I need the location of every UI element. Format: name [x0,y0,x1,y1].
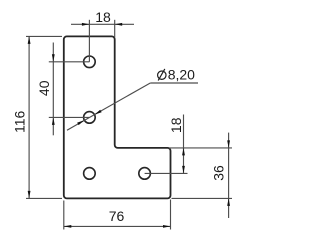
dimension 18 (top): dimension line [71,23,134,25]
svg-text:36: 36 [210,165,226,181]
dimension 18 (top): left arrow (outside, pointing right) [82,23,90,26]
dimension 116 (far left): top extension line [26,35,62,37]
dimension 36 (far right): top arrow (outside, pointing down) [227,140,230,148]
dimension 18 (right inner): bottom arrow (inside, pointing down) [182,166,185,174]
svg-text:116: 116 [11,111,27,134]
dimension 76 (bottom): right extension line below bottom-right corner [170,200,172,230]
dimension 18 (right inner): dimension line [183,115,185,174]
hole 4 (bottom-right, horizontal arm) [139,168,151,180]
dimension 18 (top): extension line from top-right corner upward [114,20,116,38]
part outline: L-shaped plate [64,36,171,198]
diameter leader: upper-right arrow (outside circle, pointing down-left) [94,110,101,115]
dimension 40 (left): extension line through hole 1 center [49,61,90,63]
dimension 76 (bottom): left arrow (inside, pointing left) [64,225,72,228]
dimension 40 (left): extension line through hole 2 center [49,116,90,118]
hole 3 (bottom-left, horizontal arm) [84,168,96,180]
dimension 36 (far right): bottom extension line from bottom-right corner [172,197,233,199]
dimension 40 (left): dimension line [52,43,54,136]
svg-text:40: 40 [36,80,52,96]
diameter symbol (circle with slash) [158,71,166,79]
dimension 36 (far right): dimension line [228,133,230,218]
dimension 76 (bottom): dimension line [64,225,171,227]
svg-text:76: 76 [109,208,125,224]
dimension 40 (left): bottom arrow (outside, pointing up) [52,117,55,125]
hole 2 (middle, vertical arm) [84,112,96,124]
dimension 116 (far left): dimension line [28,36,30,198]
dimension 18 (top): extension line from hole 1 center upward [88,20,90,62]
dimension 18 (right inner): extension line from hole 4 center to the right [145,172,188,174]
diameter leader: lower-left arrow (outside circle, pointing up-right) [77,120,84,125]
svg-text:8,20: 8,20 [168,66,195,82]
dimension 116 (far left): bottom extension line [26,197,62,199]
diameter leader: diagonal line through hole 2 [67,83,150,130]
dimension 18 (right inner): top arrow (inside, pointing up) [182,148,185,156]
svg-text:18: 18 [168,117,184,133]
dimension 36 (far right): bottom arrow (outside, pointing up) [227,198,230,206]
dimension 76 (bottom): right arrow (inside, pointing right) [163,225,171,228]
dimension 116 (far left): bottom arrow (inside, pointing down) [28,191,31,199]
dimension 116 (far left): top arrow (inside, pointing up) [28,36,31,44]
dimension 76 (bottom): left extension line below bottom-left corner [63,201,65,230]
dimension 40 (left): top arrow (outside, pointing down) [52,54,55,62]
hole 1 (top, vertical arm) [84,56,96,68]
diameter leader: horizontal tail under the text [150,82,198,84]
svg-text:18: 18 [95,9,111,25]
dimension 18 (top): right arrow (outside, pointing left) [115,23,123,26]
shared extension line of horizontal arm top edge (to the right) [169,147,232,149]
